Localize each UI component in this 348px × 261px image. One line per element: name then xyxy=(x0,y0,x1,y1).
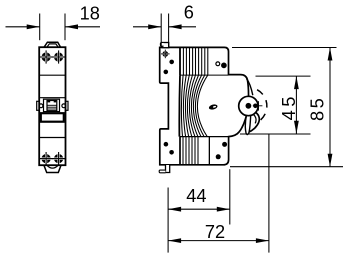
svg-text:45: 45 xyxy=(279,93,299,120)
svg-text:85: 85 xyxy=(308,96,328,121)
svg-text:18: 18 xyxy=(80,4,100,24)
svg-text:72: 72 xyxy=(205,222,225,242)
svg-text:44: 44 xyxy=(186,186,206,206)
svg-text:6: 6 xyxy=(184,3,194,23)
